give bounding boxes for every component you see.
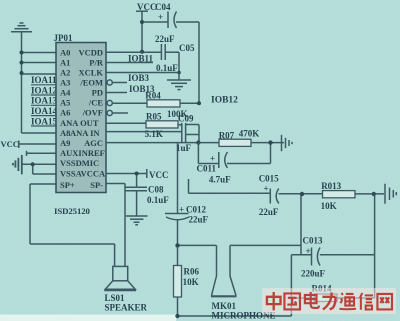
svg-text:0.1uF: 0.1uF <box>156 63 178 73</box>
svg-text:C04: C04 <box>155 2 171 12</box>
svg-text:LS01: LS01 <box>105 293 126 303</box>
svg-text:IOA13: IOA13 <box>31 96 58 106</box>
svg-text:22uF: 22uF <box>155 34 175 44</box>
svg-text:IOA11: IOA11 <box>31 75 57 85</box>
svg-text:C012: C012 <box>186 205 206 215</box>
svg-text:0.1uF: 0.1uF <box>147 195 169 205</box>
svg-text:R06: R06 <box>184 267 200 277</box>
svg-text:SP+: SP+ <box>60 180 75 190</box>
svg-text:+: + <box>306 246 311 256</box>
svg-text:XCLK: XCLK <box>78 68 103 78</box>
svg-text:10K: 10K <box>183 277 199 287</box>
svg-text:A9: A9 <box>60 138 70 148</box>
svg-text:C011: C011 <box>197 164 217 174</box>
svg-text:SP-: SP- <box>90 180 103 190</box>
svg-text:R013: R013 <box>321 181 341 191</box>
svg-text:VSSDMIC: VSSDMIC <box>60 158 99 168</box>
svg-text:C015: C015 <box>259 173 279 183</box>
svg-text:VSSAVCCA: VSSAVCCA <box>60 169 106 179</box>
svg-text:/EOM: /EOM <box>79 78 103 88</box>
svg-text:MK01: MK01 <box>212 301 237 311</box>
svg-text:VCC: VCC <box>1 139 19 149</box>
svg-text:A2: A2 <box>60 68 70 78</box>
svg-text:IOB12: IOB12 <box>211 95 238 105</box>
svg-text:A1: A1 <box>60 58 70 68</box>
svg-text:AUXINREF: AUXINREF <box>60 148 105 158</box>
svg-text:+: + <box>158 12 163 22</box>
svg-text:A3: A3 <box>60 78 70 88</box>
svg-text:5.1K: 5.1K <box>145 129 163 139</box>
svg-text:IOA15: IOA15 <box>31 116 58 126</box>
svg-text:P/R: P/R <box>89 58 104 68</box>
svg-text:IOA12: IOA12 <box>31 85 58 95</box>
svg-text:ANA IN: ANA IN <box>70 128 100 138</box>
svg-text:/OVF: /OVF <box>82 108 103 118</box>
svg-text:R05: R05 <box>146 112 162 122</box>
svg-text:+: + <box>210 154 215 164</box>
svg-text:R07: R07 <box>219 131 235 141</box>
svg-text:PD: PD <box>92 88 103 98</box>
svg-text:22uF: 22uF <box>189 215 209 225</box>
svg-text:C09: C09 <box>178 114 194 124</box>
svg-text:+: + <box>179 205 184 215</box>
svg-text:+: + <box>264 184 269 194</box>
svg-text:IOA14: IOA14 <box>31 106 58 116</box>
svg-text:A8: A8 <box>60 128 70 138</box>
svg-text:/CE: /CE <box>88 98 104 108</box>
svg-text:C013: C013 <box>303 236 323 246</box>
svg-text:R04: R04 <box>145 91 161 101</box>
svg-text:C05: C05 <box>179 43 195 53</box>
svg-text:ISD25120: ISD25120 <box>54 206 91 216</box>
svg-text:22uF: 22uF <box>259 207 279 217</box>
svg-text:A4: A4 <box>60 88 71 98</box>
svg-text:IOB11: IOB11 <box>128 54 154 64</box>
svg-text:470K: 470K <box>239 129 260 139</box>
svg-text:A6: A6 <box>60 108 70 118</box>
svg-text:VCDD: VCDD <box>78 48 103 58</box>
svg-text:220uF: 220uF <box>301 269 326 279</box>
svg-text:IOB3: IOB3 <box>128 73 150 83</box>
svg-text:VCC: VCC <box>149 170 169 180</box>
svg-text:A0: A0 <box>60 48 70 58</box>
svg-text:4.7uF: 4.7uF <box>209 175 231 185</box>
svg-text:SPEAKER: SPEAKER <box>105 303 148 313</box>
svg-text:1uF: 1uF <box>176 143 192 153</box>
svg-text:AGC: AGC <box>84 138 103 148</box>
svg-text:A5: A5 <box>60 98 70 108</box>
svg-text:JP01: JP01 <box>54 33 73 43</box>
svg-text:C08: C08 <box>148 185 164 195</box>
svg-text:ANA OUT: ANA OUT <box>60 118 99 128</box>
svg-text:10K: 10K <box>321 201 337 211</box>
